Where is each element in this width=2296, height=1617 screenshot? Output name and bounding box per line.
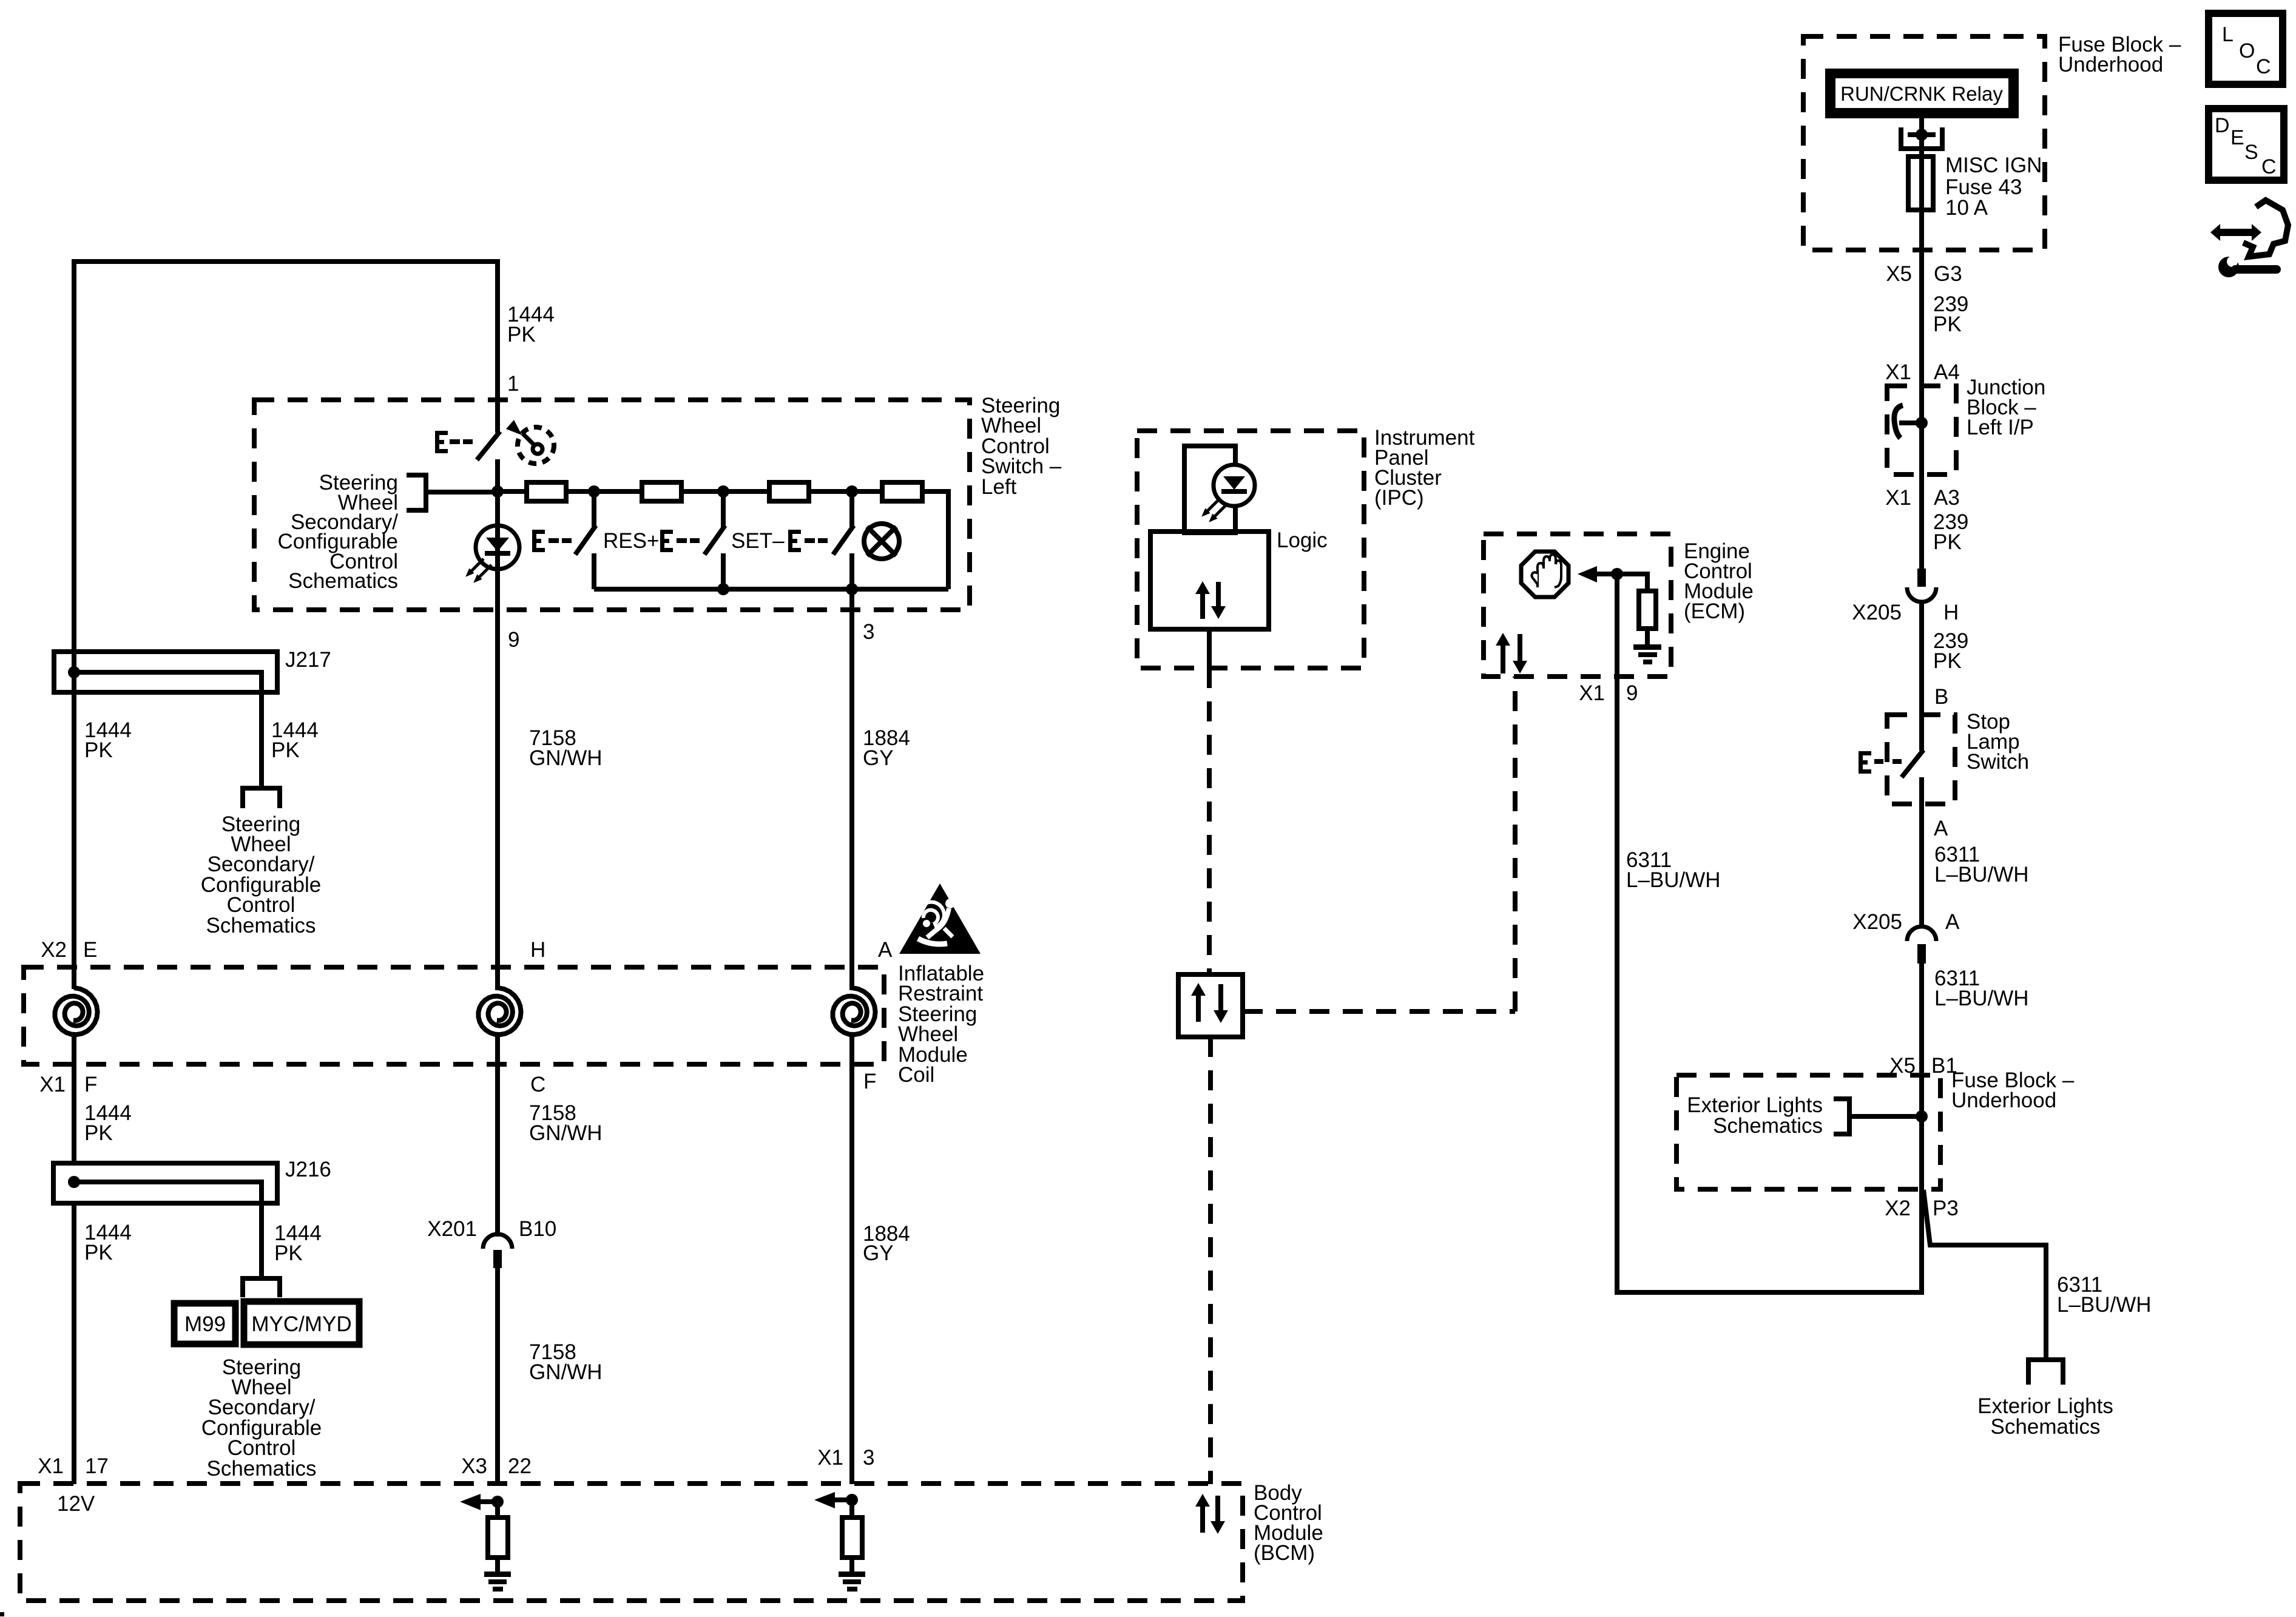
labels X2 | P3 [1885,1197,1959,1220]
connector X205 H (inline) [1907,569,1936,602]
svg-text:(ECM): (ECM) [1684,599,1745,623]
BCM input arrow + pulldown (X1-3) [814,1492,858,1517]
svg-text:L: L [2222,23,2234,46]
wire: resistor ladder top rail [498,489,527,494]
svg-text:Underhood: Underhood [1951,1089,2056,1112]
coil spiral (wire 2) [479,988,521,1035]
wire: 6311 horizontal run to fuse block [1615,1290,1922,1295]
node: ECM input junction [1611,568,1623,580]
label 7158 GN/WH (upper) [529,726,603,770]
switch S0 top (cruise on/off) [477,400,500,493]
label 6311 L-BU/WH (exterior) [2057,1273,2152,1317]
svg-text:L–BU/WH: L–BU/WH [1934,863,2029,886]
label: Junction Block - Left I/P [1967,376,2045,439]
svg-text:Logic: Logic [1277,528,1328,552]
stray mark bottom-left [0,1612,4,1616]
svg-text:X2: X2 [1885,1197,1911,1220]
body control module box (dashed) [20,1484,1243,1601]
label: Steering Wheel Secondary/Configurable Control Schematics (J216 branch) [201,1355,322,1480]
labels X1 | 9 (ECM) [1579,681,1638,705]
label 239 PK [1933,629,1968,673]
svg-text:RUN/CRNK Relay: RUN/CRNK Relay [1840,83,2003,105]
svg-text:(BCM): (BCM) [1254,1541,1315,1565]
svg-text:J216: J216 [285,1158,331,1181]
label: Steering Wheel Secondary/Configurable Control Schematics (switch box) [278,471,399,593]
svg-text:J217: J217 [285,648,331,672]
svg-text:MISC IGN: MISC IGN [1945,154,2042,177]
label 6311 L-BU/WH (ECM side) [1626,848,1721,892]
svg-text:C: C [2261,155,2277,178]
label 6311 L-BU/WH [1934,843,2029,886]
label 1444 PK (branch, below J217) [271,718,319,762]
wire: to ECM pullup [1617,574,1647,591]
splice pack J216 [53,1163,277,1276]
resistor (ECM pullup) [1639,591,1656,629]
node: junction main [491,485,504,498]
svg-text:Switch: Switch [1967,750,2029,774]
svg-text:X1: X1 [1885,486,1911,510]
svg-text:H: H [530,938,545,962]
svg-text:Schematics: Schematics [288,569,398,593]
svg-text:Left: Left [981,475,1017,499]
serial data in-line box with arrows [1178,974,1243,1037]
svg-text:22: 22 [508,1454,532,1478]
label: Exterior Lights Schematics (bottom) [1977,1394,2113,1439]
svg-text:X3: X3 [461,1454,487,1478]
wire: serial data (dashed) to BCM [1208,1037,1213,1484]
svg-text:Schematics: Schematics [1991,1415,2101,1439]
resistor R2 [642,482,681,501]
warning triangle (SIR) [899,883,981,954]
relay box RUN/CRNK Relay [1829,73,2014,114]
E-connector for S2 [660,530,700,552]
svg-text:X1: X1 [817,1446,843,1470]
svg-text:GN/WH: GN/WH [529,1121,603,1145]
svg-text:PK: PK [84,1241,113,1264]
pin row above BCM: X1|17, X3|22, X1|3 [38,1446,874,1478]
ECM bidirectional arrows [1496,633,1527,673]
wire: 7158 to BCM [495,1268,500,1484]
terminal box MYC/MYD [244,1301,359,1345]
svg-text:X1: X1 [39,1073,66,1096]
labels X1 | A3 [1885,486,1960,510]
IPC logic box [1150,532,1269,629]
wire: serial data (dashed) vertical to ECM [1513,677,1518,1011]
E-connector for stop lamp switch [1859,751,1902,774]
wire: switch bottom rail [594,587,948,592]
IPC logic bidirectional arrows [1195,581,1226,619]
labels X5 | B1 [1889,1054,1957,1078]
terminal box M99 [174,1303,235,1344]
svg-text:X1: X1 [1579,681,1605,705]
wire: left 1444 PK below J216 [72,1203,76,1484]
svg-text:L–BU/WH: L–BU/WH [1934,987,2029,1010]
svg-text:L–BU/WH: L–BU/WH [1626,868,1721,892]
labels X1 | A4 [1885,360,1960,384]
wire [566,489,642,494]
label: Exterior Lights Schematics (in fuse block) [1687,1093,1823,1138]
svg-text:GN/WH: GN/WH [529,746,603,770]
svg-text:Schematics: Schematics [207,1457,317,1480]
label: Steering Wheel Control Switch - Left [981,394,1062,499]
ground (BCM internal, X3-22) [484,1558,511,1592]
svg-text:O: O [2239,39,2255,62]
node: exterior lights junction [1916,1110,1928,1122]
wire: 239 PK fuse to junction block [1919,210,1924,569]
svg-text:Coil: Coil [898,1063,934,1087]
connector X201 B10 (inline) [483,1234,512,1268]
wire: left vertical 12V feed [72,259,76,989]
svg-text:Left I/P: Left I/P [1967,416,2034,439]
wire: coil3 exit down [849,1033,854,1484]
label 7158 GN/WH (bottom) [529,1340,603,1384]
ground (ECM internal) [1633,629,1661,664]
svg-text:A: A [1934,817,1948,840]
svg-text:12V: 12V [57,1492,95,1516]
DESC legend box [2209,109,2284,180]
BCM input arrow + pulldown (X3-22) [460,1494,504,1517]
svg-text:GY: GY [863,1241,894,1265]
svg-text:PK: PK [1933,530,1962,554]
label 1444 PK (left, below J217) [84,718,132,762]
svg-text:B10: B10 [519,1217,556,1241]
svg-text:PK: PK [271,738,300,762]
connector X205 A (inline) [1907,927,1936,964]
label: Fuse Block - Underhood (lower) [1951,1068,2075,1112]
svg-text:3: 3 [863,1446,874,1470]
svg-text:PK: PK [274,1241,303,1265]
E-connector for S1 [532,530,572,552]
svg-text:Schematics: Schematics [206,914,316,937]
fuse MISC IGN Fuse 43 10A [1908,157,1933,210]
label 7158 GN/WH (below coil) [529,1101,603,1145]
E-connector for S3 [788,530,828,552]
IPC lamp driver rectangle [1184,446,1235,533]
svg-text:Schematics: Schematics [1713,1114,1823,1138]
svg-text:H: H [1943,601,1959,624]
wire: 6311 branch slant to exterior lights [1923,1190,2046,1357]
instrument panel cluster box (dashed) [1137,431,1364,668]
resistor (BCM pullup X1-3) [842,1517,862,1558]
svg-text:PK: PK [1933,649,1962,673]
label: Engine Control Module (ECM) [1684,539,1754,623]
switch S2 (SET-) [704,491,725,589]
junction block - left I/P box (dashed) [1887,386,1956,474]
svg-text:A: A [878,938,893,962]
label: Fuse Block - Underhood (top) [2058,33,2181,76]
wire: 1884 GY from pin 3 to coil [849,610,854,990]
LOC legend box [2209,13,2283,84]
svg-text:D: D [2215,114,2230,137]
svg-text:F: F [84,1073,97,1096]
svg-text:MYC/MYD: MYC/MYD [251,1312,351,1336]
wire: LED to pin 9 [495,569,500,610]
fuse block underhood box (dashed, lower) [1676,1075,1940,1189]
connector: off-page bracket (J217 branch) [243,788,280,808]
node bottom D2 [717,583,729,595]
label: Body Control Module (BCM) [1254,1481,1323,1565]
pin row X1|F, C, F below coil [39,1070,876,1096]
label 1884 GY (upper) [863,726,910,770]
label 239 PK [1933,292,1968,336]
labels X201 | B10 [427,1217,556,1241]
svg-text:C: C [530,1073,545,1096]
svg-text:3: 3 [863,620,874,644]
label: Instrument Panel Cluster (IPC) [1374,426,1475,510]
wire: 239 PK to stop lamp switch [1919,601,1924,751]
resistor R1 [527,482,566,501]
ground (BCM internal, X1-3) [839,1558,865,1592]
connector: off-page bracket (J216 branch) [243,1278,280,1297]
resistor R3 [769,482,809,501]
svg-text:10 A: 10 A [1945,196,1988,220]
svg-text:1: 1 [507,372,519,396]
svg-text:B: B [1934,685,1948,709]
connector: off-page bracket (exterior lights) [2028,1360,2063,1385]
wire: coil2 exit down [495,1033,500,1237]
labels X5 | G3 [1886,262,1962,286]
labels X205 | A [1852,910,1960,934]
wire: coil1 exit to J216 [72,1033,76,1163]
svg-text:PK: PK [1933,312,1962,336]
fuse block underhood box (dashed, top) [1803,36,2045,250]
label: Steering Wheel Secondary/Configurable Control Schematics (J217 branch) [201,812,321,937]
svg-text:A: A [1945,910,1960,934]
svg-text:A4: A4 [1934,360,1960,384]
node D3 [846,485,858,498]
node D2 [717,485,729,498]
wire: pin 3 drop [849,589,854,610]
wire: 7158 GN/WH from pin 9 to coil [495,610,500,990]
svg-text:L–BU/WH: L–BU/WH [2057,1293,2152,1317]
wire: serial data (dashed) box to ECM horizontal [1243,1009,1515,1014]
svg-text:C: C [2256,55,2271,78]
splice pack J217 [54,652,277,786]
svg-text:X5: X5 [1886,262,1912,286]
label 1444 PK (left, below J216) [84,1221,132,1264]
label 1444 PK (below coil) [84,1101,132,1145]
svg-text:Underhood: Underhood [2058,53,2163,76]
svg-text:M99: M99 [184,1312,226,1336]
pin row X2|E, H, A above coil [41,938,893,962]
label: Inflatable Restraint Steering Wheel Module Coil [898,962,984,1087]
svg-text:G3: G3 [1934,262,1962,286]
engine control module box (dashed) [1484,534,1671,677]
labels X205 | H [1852,601,1959,624]
svg-text:9: 9 [1626,681,1638,705]
svg-text:PK: PK [507,323,536,346]
LED indicator (switch backlight) [468,493,519,581]
svg-text:PK: PK [84,738,113,762]
svg-text:PK: PK [84,1121,113,1145]
label 239 PK [1933,510,1968,554]
bracket: steering wheel secondary schematics tap [407,475,496,510]
label 1444 PK (branch, below J216) [274,1221,322,1265]
wire: ECM X1-9 6311 L-BU/WH down [1615,574,1619,1292]
svg-text:S: S [2244,141,2258,164]
svg-text:E: E [83,938,97,962]
wire [809,489,882,494]
BCM bidirectional arrows [1195,1494,1225,1534]
wire: IPC serial data (dashed) to in-line box [1207,668,1212,974]
junction block bus tap [1894,405,1928,438]
wire: ladder right riser [922,491,948,589]
ECM input arrow [1578,566,1617,582]
svg-text:(IPC): (IPC) [1374,486,1424,510]
relay output terminal cup [1901,114,1942,157]
stop lamp switch box (dashed) [1887,715,1955,804]
svg-text:9: 9 [508,628,519,652]
svg-text:A3: A3 [1934,486,1960,510]
svg-text:E: E [2230,126,2244,149]
label: Stop Lamp Switch [1967,710,2029,774]
svg-text:17: 17 [85,1454,109,1478]
wire: 6311 vertical up to X2-P3 [1919,1189,1924,1295]
svg-text:X205: X205 [1852,601,1902,624]
inflatable restraint coil box (dashed) [24,967,884,1064]
svg-text:X1: X1 [38,1454,64,1478]
service icon (arrow + part + wrench) [2210,200,2288,277]
stop lamp switch contacts [1902,750,1923,927]
lamp symbol (illumination) [864,524,899,559]
resistor (BCM pullup X3-22) [488,1517,508,1558]
wire: switch feed vertical from corner to switch box pin 1 [495,259,500,401]
svg-text:F: F [863,1070,876,1093]
label 1884 GY (lower) [863,1222,910,1265]
wire: battery feed top horizontal 1444 PK [74,259,498,264]
svg-text:P3: P3 [1933,1197,1959,1220]
node D1 [588,485,600,498]
svg-text:RES+: RES+ [603,529,659,553]
gauge icon (speed control) [506,420,554,464]
svg-text:GY: GY [863,746,894,770]
svg-text:X1: X1 [1885,360,1911,384]
wire [681,489,769,494]
node bottom D3 [846,583,858,595]
wire: 6311 to fuse block [1919,964,1924,1189]
svg-text:X205: X205 [1852,910,1902,934]
bracket: exterior lights tap [1834,1099,1919,1134]
stop/brake hand octagon [1521,552,1568,597]
E-connector symbol for top switch [435,431,473,453]
switch S3 (cancel) [833,491,854,589]
IPC LED indicator [1204,465,1255,520]
label 6311 L-BU/WH [1934,967,2029,1010]
switch S1 (RES+) [575,491,596,589]
wire: logic box to IPC edge [1207,629,1212,668]
resistor R4 [882,482,922,501]
coil spiral (wire 3) [833,988,876,1035]
steering wheel control switch box (dashed) [254,400,970,610]
svg-text:X201: X201 [427,1217,477,1241]
label: MISC IGN Fuse 43 10 A [1945,154,2042,220]
svg-text:SET–: SET– [731,529,785,553]
svg-text:X2: X2 [41,938,67,962]
svg-text:GN/WH: GN/WH [529,1360,603,1384]
coil spiral (wire 1) [55,988,98,1035]
